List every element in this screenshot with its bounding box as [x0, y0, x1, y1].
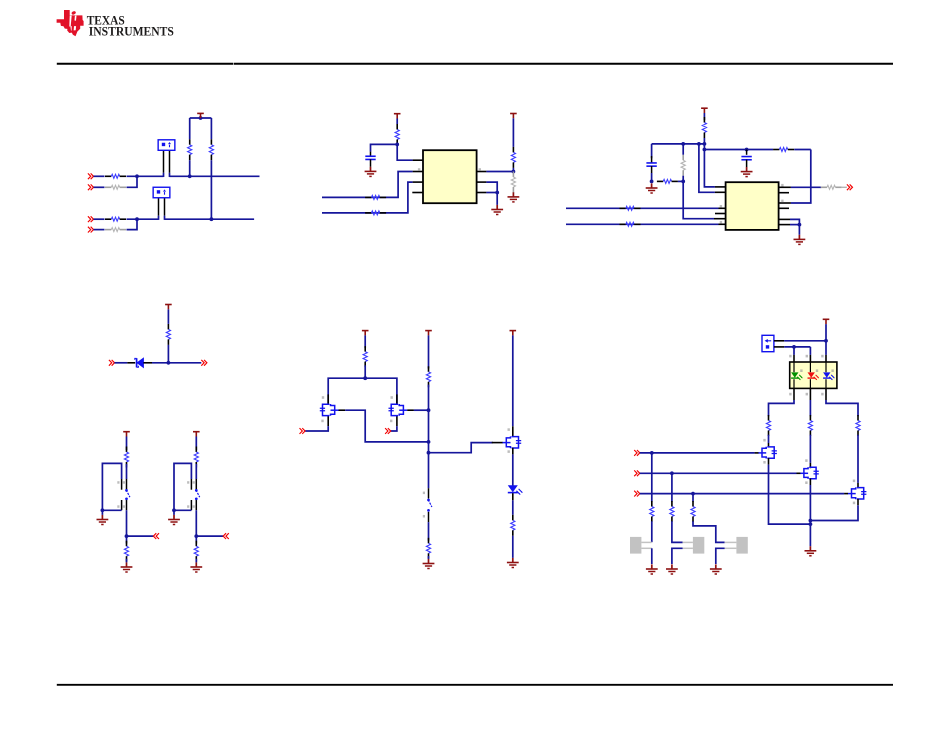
junction VCC U1: [395, 143, 399, 147]
jumper J1 pin1 lead: [163, 150, 165, 177]
wire: [428, 522, 430, 541]
junction SW2 gnd: [172, 508, 176, 512]
wire: [127, 535, 154, 537]
Q5 gate lead: [797, 472, 801, 474]
Q6 source lead: [857, 499, 859, 505]
wire Q6 source: [810, 505, 858, 520]
Q1 source lead: [339, 409, 346, 411]
wire input B: [566, 223, 719, 225]
pad JP3 pins: [725, 542, 737, 548]
junction power: [199, 116, 203, 120]
junction pull-up R3: [188, 174, 192, 178]
wire U1 out: [486, 171, 513, 173]
pin number 2: [418, 168, 420, 171]
power +V mid: [425, 331, 432, 336]
ground ch3: [710, 564, 722, 574]
wire: [210, 118, 212, 139]
ground U1: [491, 205, 503, 215]
junction D1/R18: [167, 361, 171, 365]
pad JP2: [693, 537, 704, 554]
Q3 gate lead: [492, 442, 503, 444]
wire: [790, 219, 799, 224]
rail2 wire: [704, 149, 773, 151]
power +V RGB: [823, 319, 830, 324]
power +V SW1: [123, 432, 130, 437]
wire: [189, 118, 191, 139]
pad JP3: [736, 537, 747, 554]
power +V SW2: [193, 432, 200, 437]
capacitor C2: [646, 163, 656, 166]
wire: [127, 219, 138, 229]
diode D1 anode lead: [127, 362, 135, 364]
junction rail/R14: [681, 142, 685, 146]
resistor R18 pull-up: [166, 324, 170, 345]
resistor R11 DNP: [511, 172, 515, 193]
wire: [486, 192, 497, 194]
LED blue: [823, 372, 835, 380]
junction N2 left: [135, 217, 139, 221]
resistor R19 pull-up: [124, 447, 128, 468]
junction rail/power: [703, 142, 707, 146]
wire gate Q3: [429, 443, 494, 453]
wire: [167, 345, 169, 363]
wire Q5 source: [809, 485, 811, 546]
wire red cathode: [809, 400, 811, 416]
power +V group1: [197, 113, 204, 118]
wire: [152, 362, 201, 364]
resistor R14 DNP: [681, 155, 685, 176]
wire: [768, 435, 770, 443]
wire: [396, 119, 398, 125]
wire: [196, 535, 223, 537]
junction C3: [745, 148, 749, 152]
pin number 16: [781, 184, 783, 187]
pad JP2 pins: [683, 542, 693, 548]
pin number Q3-2: [508, 428, 510, 431]
pin number 1: [821, 393, 823, 396]
U1 pin 6 lead: [477, 181, 487, 183]
ground LED: [507, 558, 519, 568]
wire: [716, 548, 725, 564]
wire: [672, 548, 683, 564]
Q3 drain lead: [512, 426, 514, 437]
U2 pin 6 stub: [715, 213, 726, 215]
Q5 source lead: [809, 479, 811, 486]
wire: [512, 454, 514, 485]
U2 pin 16 lead: [779, 186, 791, 188]
transistor Q1: [320, 404, 339, 416]
header rule: [57, 63, 893, 65]
SW1 bracket wire: [102, 463, 121, 510]
junction gate wire: [427, 451, 431, 455]
pin number 5: [720, 205, 722, 208]
wire: [126, 559, 128, 563]
resistor R21 pull-up: [194, 447, 198, 468]
wire: [173, 510, 175, 515]
switch SW1 pushbutton: [117, 479, 130, 510]
junction Q1/mid: [427, 440, 431, 444]
wire gate blue: [640, 493, 844, 495]
resistor R32 pull-down: [691, 501, 695, 522]
pin number Q6-3: [853, 502, 855, 505]
ground RGB: [805, 546, 817, 556]
switch SW3: [423, 492, 432, 518]
resistor R25: [426, 538, 430, 559]
Q4 drain lead: [768, 443, 770, 448]
jumper J2 pin2 lead: [164, 198, 166, 220]
pin number 8: [720, 221, 722, 224]
wire: [364, 365, 366, 378]
Texas Instruments logo mark: [57, 10, 84, 36]
wire Q1 out: [345, 410, 428, 442]
capacitor C2 bottom lead: [651, 166, 653, 173]
transistor array U2 body: [726, 182, 779, 230]
capacitor C3: [741, 157, 751, 160]
label B: [831, 369, 833, 372]
footer rule: [57, 684, 893, 686]
Q1 gate lead: [327, 416, 329, 427]
U1 pin 4 stub: [412, 192, 423, 194]
wire: [793, 347, 795, 355]
wire gate Q2: [391, 426, 397, 431]
port input B-EN: [634, 491, 640, 497]
wire: [790, 224, 799, 226]
wire: [682, 144, 684, 155]
resistor R2 DNP: [105, 185, 126, 189]
resistor R16: [620, 222, 641, 226]
pin number 3: [789, 393, 791, 396]
junction Q2/mid: [427, 408, 431, 412]
wire: [101, 510, 103, 515]
pin number Q5-3: [805, 481, 807, 484]
junction R13/R14: [681, 180, 685, 184]
junction N2: [210, 217, 214, 221]
pin number Q3-3: [508, 450, 510, 453]
LED module D3 pin1 lead: [825, 388, 827, 400]
wire: [651, 548, 653, 564]
resistor R5: [105, 217, 126, 221]
capacitor C1: [365, 156, 375, 159]
wire: [512, 335, 514, 426]
wire: [825, 324, 827, 341]
wire pin2 net: [322, 172, 413, 198]
connector P1 pin2 lead: [774, 346, 784, 348]
wire: [94, 175, 105, 177]
capacitor C2 top lead: [651, 156, 653, 163]
pin number Q6-2: [853, 480, 855, 483]
port input G1: [300, 428, 306, 434]
pin number Q5-2: [805, 459, 807, 462]
LED module D3 pin5 lead: [809, 388, 811, 400]
rail2 wire right: [794, 149, 811, 151]
wire VCC to pin: [397, 144, 412, 160]
wire to U2 pin7: [683, 181, 714, 218]
wire: [512, 118, 514, 147]
ground ch1: [646, 564, 658, 574]
capacitor C1 bottom lead: [370, 159, 372, 167]
diode D1 cathode lead: [143, 362, 152, 364]
SW3 pin1 lead: [428, 512, 430, 522]
jumper J2 pin1 lead: [158, 198, 160, 220]
U2 pin 5 lead: [719, 207, 726, 209]
U2 pin 10 stub: [779, 207, 789, 209]
resistor R31 pull-down: [670, 501, 674, 522]
Q4 gate lead: [755, 452, 759, 454]
junction U1 gnd: [495, 191, 499, 195]
port output D: [201, 360, 207, 366]
LED module D3 pin4 lead: [825, 355, 827, 362]
wire: [857, 435, 859, 483]
Q2 gate lead: [396, 416, 398, 427]
port input R-EN: [634, 450, 640, 456]
wire: [651, 521, 653, 542]
wire: [428, 556, 430, 559]
ground C2: [646, 183, 658, 193]
ground R11: [508, 192, 520, 202]
wire green cathode: [769, 400, 795, 416]
Q5 drain lead: [809, 463, 811, 468]
wire Q2 out: [414, 409, 429, 411]
wire gate green: [640, 452, 755, 454]
diode D1 (Schottky): [135, 358, 144, 367]
wire: [189, 160, 191, 176]
wire: [428, 335, 430, 368]
pin number 5: [479, 168, 481, 171]
wire: [672, 521, 683, 542]
wire: [364, 335, 366, 348]
wire: [94, 229, 105, 231]
port input 3: [88, 216, 94, 222]
LED green: [791, 372, 803, 380]
resistor R10 pull-up: [511, 147, 515, 168]
wire to C1: [371, 144, 398, 151]
wire: [496, 193, 498, 205]
power +V D1: [165, 305, 172, 310]
transistor Q6 blue: [848, 487, 867, 499]
power +V pull-up: [510, 114, 517, 119]
resistor R22: [194, 541, 198, 562]
pin number Q2-3: [390, 420, 392, 423]
jumper J1: [158, 140, 175, 151]
junction gate blue: [691, 492, 695, 496]
wire: [671, 473, 673, 501]
ground ch2: [666, 564, 678, 574]
pin number Q2-4: [391, 396, 393, 399]
ground SW3: [423, 559, 435, 569]
wire gate red: [640, 472, 797, 474]
wire: [174, 509, 191, 511]
ground SW2: [168, 515, 180, 525]
resistor R24: [426, 366, 430, 387]
resistor R15: [620, 206, 641, 210]
wire: [692, 494, 694, 502]
label G: [800, 369, 802, 372]
jumper J1 pin2 lead: [169, 150, 171, 177]
capacitor C3 bottom lead: [746, 160, 748, 167]
resistor R26: [511, 515, 515, 536]
wire: [115, 362, 128, 364]
resistor R9: [365, 211, 386, 215]
wire: [809, 435, 811, 463]
port output SW2: [223, 533, 229, 539]
Q1 drain lead: [327, 394, 329, 404]
LED module D3 pin3 lead: [793, 388, 795, 400]
resistor R7: [395, 124, 399, 145]
wire gate Q1: [305, 426, 328, 431]
wire: [126, 510, 128, 536]
ground SW1: [97, 515, 109, 525]
resistor R27: [766, 415, 770, 436]
wire: [798, 225, 800, 235]
U2 pin 7 lead: [714, 218, 726, 220]
port input G2: [385, 428, 391, 434]
U1 pin 5 lead: [477, 171, 487, 173]
Q6 drain lead: [857, 483, 859, 488]
wire: [682, 176, 684, 182]
port input G-EN: [634, 470, 640, 476]
wire: [396, 143, 398, 146]
junction RGB power: [824, 339, 828, 343]
wire: [195, 437, 197, 451]
RGB LED module D3 body: [790, 362, 837, 388]
wire: [195, 510, 197, 536]
wire: [703, 144, 705, 150]
junction SW1 out: [125, 534, 129, 538]
resistor R29: [856, 415, 860, 436]
wire: [486, 182, 497, 192]
LED D2 cathode lead: [512, 493, 514, 500]
U1 pin 2 lead: [413, 171, 423, 173]
wire: [126, 437, 128, 451]
transistor Q4 green: [758, 447, 777, 459]
wire blue cathode: [826, 400, 858, 416]
port input 2: [88, 184, 94, 190]
power +V U1: [394, 114, 401, 119]
Q3 source lead: [512, 448, 514, 455]
wire net N1 to right: [170, 175, 260, 177]
pin number 5: [806, 393, 808, 396]
power +V LED: [510, 331, 517, 336]
wire: [512, 168, 514, 172]
junction green source: [809, 522, 813, 526]
pad JP1 pins: [641, 542, 651, 548]
pin number 4: [821, 355, 823, 358]
junction SW2 out: [194, 534, 198, 538]
wire net N2 to right: [165, 218, 255, 220]
op-amp U1 body: [423, 150, 477, 203]
Q2 source lead: [407, 409, 414, 411]
wire: [703, 113, 705, 120]
LED module D3 pin8 lead: [793, 355, 795, 362]
pin number 8: [789, 355, 791, 358]
ground SW1 bottom: [121, 562, 133, 572]
wire DNP: [512, 192, 514, 194]
wire: [195, 536, 197, 543]
U1 pin 1 lead: [413, 159, 423, 161]
wire to U2 pin2: [699, 144, 715, 192]
power +V U2: [701, 108, 708, 113]
transistor Q3: [503, 436, 522, 448]
resistor R33 series: [773, 148, 794, 152]
U1 pin 3 lead: [413, 181, 423, 183]
capacitor C3 top lead: [746, 150, 748, 155]
junction Q1Q2 rail: [363, 376, 367, 380]
resistor R1: [105, 174, 126, 178]
junction SW1 gnd: [101, 508, 105, 512]
junction anode G: [792, 345, 796, 349]
LED D3 red internal pins: [809, 362, 811, 388]
pin number Q4-2: [763, 439, 765, 442]
U2 pin 9 lead: [779, 218, 790, 220]
pin number Q1-2: [321, 420, 323, 423]
junction R10/R11: [512, 170, 516, 174]
jumper J2: [153, 187, 170, 198]
wire: [102, 509, 121, 511]
transistor Q2: [389, 404, 408, 416]
pin number 11: [781, 200, 783, 203]
junction gate green: [650, 451, 654, 455]
wire: [512, 536, 514, 558]
wire: [195, 464, 197, 479]
LED red: [808, 372, 820, 380]
resistor R17 DNP: [821, 185, 842, 189]
Q2 drain lead: [396, 394, 398, 404]
wire DNP: [682, 144, 684, 155]
junction blue source: [809, 519, 813, 523]
junction N1: [135, 174, 139, 178]
junction rail/pin2: [697, 142, 701, 146]
wire: [94, 186, 105, 188]
pin number Q4-3: [763, 461, 765, 464]
junction C2/R13: [650, 180, 654, 184]
connector P1: [762, 335, 774, 351]
port input 1: [88, 173, 94, 179]
resistor R28: [808, 415, 812, 436]
wire: [651, 453, 653, 502]
wire DNP: [842, 186, 847, 188]
wire: [693, 521, 725, 542]
wire: [126, 536, 128, 543]
wire: [195, 559, 197, 563]
wire: [94, 218, 105, 220]
wire: [167, 309, 169, 324]
U2 pin 2 lead: [715, 191, 726, 193]
resistor R23 pull-up: [363, 346, 367, 367]
U2 pin 15 stub: [779, 192, 789, 194]
resistor R20: [124, 541, 128, 562]
capacitor C1 top lead: [370, 152, 372, 157]
resistor R4 pull-up: [209, 139, 213, 160]
power rail wire: [190, 117, 212, 119]
SW2 bracket wire: [174, 463, 191, 510]
ground SW2 bottom: [190, 562, 202, 572]
wire to C2: [651, 144, 653, 158]
wire: [678, 180, 683, 182]
power +V Q1Q2: [362, 331, 369, 336]
LED D3 blue internal pins: [825, 362, 827, 388]
junction rail2: [703, 148, 707, 152]
wire net N1: [127, 175, 164, 177]
wire: [784, 340, 826, 342]
U2 gnd pin lead: [779, 224, 790, 226]
connector P1 pin1 lead: [774, 340, 784, 342]
wire net N2: [127, 218, 159, 220]
ground C3: [741, 167, 753, 177]
wire: [784, 346, 810, 348]
port input 4: [88, 227, 94, 233]
junction U2 gnd: [798, 223, 802, 227]
wire to U2 pin1: [704, 150, 715, 187]
